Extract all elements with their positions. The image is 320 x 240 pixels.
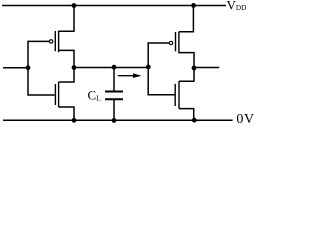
svg-text:0V: 0V <box>236 112 254 125</box>
